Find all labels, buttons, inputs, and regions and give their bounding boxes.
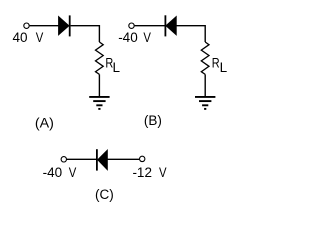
svg-text:L: L [220,60,228,75]
svg-text:-12: -12 [132,165,152,180]
terminal node -40 V input (circuit B) [129,23,134,28]
ground (circuit B) [195,97,215,109]
label RL (circuit B) [212,54,228,75]
terminal node 40 V input (circuit A) [24,23,29,28]
diode D3 (circuit C, cathode left, anode right) [97,149,108,170]
wire from diode anode to right terminal (C) [107,158,139,160]
svg-text:L: L [113,60,121,75]
svg-text:V: V [36,30,44,45]
svg-text:(A): (A) [35,115,54,130]
wire from terminal to diode anode (A) [30,25,59,27]
diode D2 (circuit B, cathode left, anode right) [165,15,176,36]
wire from resistor to ground (A) [98,74,100,97]
wire from diode cathode to node, corner down (A) [71,26,100,42]
svg-text:R: R [212,54,220,70]
svg-text:40: 40 [13,30,28,45]
wire from diode anode to node, corner down (B) [176,26,205,42]
svg-text:V: V [159,165,167,180]
wire from left terminal to diode cathode (C) [67,158,96,160]
svg-text:-40: -40 [43,165,63,180]
diode D1 (circuit A, anode left, cathode right) [59,15,70,36]
resistor RL (circuit B) [201,42,209,74]
svg-text:V: V [69,165,77,180]
svg-text:(B): (B) [144,113,162,128]
wire from resistor to ground (B) [204,74,206,97]
svg-text:-40: -40 [118,30,138,45]
terminal node -12 V (circuit C, right) [140,156,145,161]
ground (circuit A) [89,97,109,109]
svg-text:V: V [143,30,151,45]
terminal node -40 V (circuit C, left) [61,157,66,162]
wire from terminal to diode cathode (B) [135,25,165,27]
label RL (circuit A) [105,54,120,75]
svg-text:(C): (C) [95,187,114,202]
resistor RL (circuit A) [96,42,104,74]
